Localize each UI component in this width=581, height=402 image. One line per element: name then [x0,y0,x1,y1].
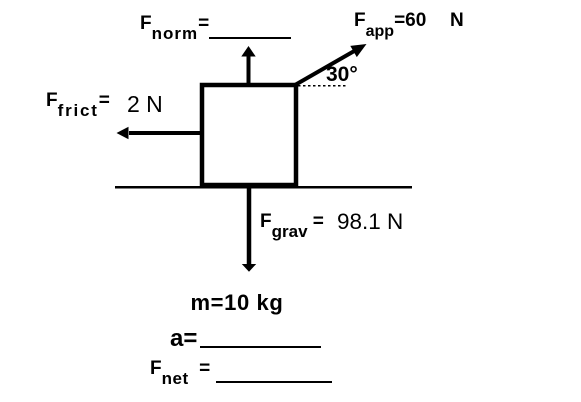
arrow F_norm (up) [241,46,255,84]
value 2 N [127,93,163,116]
blank line after F_norm [209,37,291,39]
label F_frict= [46,91,110,110]
arrow F_app (30 deg up-right) [295,44,367,85]
label F_norm= [140,14,209,33]
label a= [170,327,197,351]
box (mass block) [202,85,296,185]
label F_net = [150,359,210,378]
ground line [115,186,412,189]
label 30 degrees [326,64,358,85]
label F_grav = [260,212,324,231]
label m=10 kg [191,292,284,314]
dotted angle reference line [298,85,346,87]
value 98.1 N [337,211,403,234]
label N of F_app value [450,11,464,30]
arrow F_frict (left) [117,127,201,139]
arrow F_grav (down) [242,187,256,272]
blank line after F_net [216,381,332,383]
label F_app=60 [354,11,426,30]
blank line after a= [200,346,321,348]
